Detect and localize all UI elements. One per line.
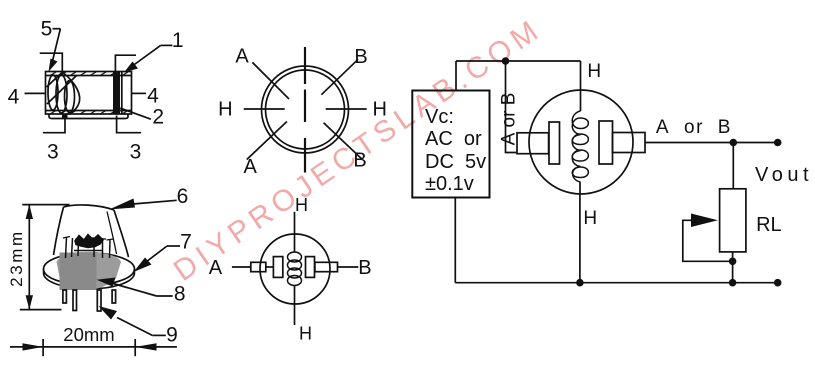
dim 23mm top tick <box>22 204 69 206</box>
wire coil to circle bottom <box>579 182 581 194</box>
leader 4 left <box>25 92 46 94</box>
bottom lip black mark <box>62 114 68 119</box>
leader 5 <box>53 28 61 30</box>
electrode plate right <box>306 257 315 278</box>
bottom lip <box>49 114 128 119</box>
leader 6 <box>133 200 177 204</box>
leader 9 <box>152 334 166 336</box>
dim 20mm right tick <box>134 339 136 356</box>
pin A top-left <box>252 62 289 99</box>
svg-text:A or B: A or B <box>656 117 732 138</box>
terminal Vout bottom <box>774 279 782 287</box>
pin H left <box>244 108 285 110</box>
svg-text:2: 2 <box>152 106 164 129</box>
interior gray rectangle <box>60 253 97 291</box>
leg 4 <box>112 290 116 303</box>
pin A bottom-left <box>247 122 287 160</box>
svg-text:A or B: A or B <box>499 93 520 146</box>
svg-text:Vc:: Vc: <box>425 106 454 128</box>
mesh diagonal 1 <box>47 73 63 88</box>
svg-text:H: H <box>295 195 308 215</box>
svg-text:AC or: AC or <box>425 128 482 150</box>
sensing layer black bar <box>113 72 120 115</box>
svg-text:20mm: 20mm <box>63 324 114 345</box>
electrode post feet <box>63 237 114 241</box>
svg-text:RL: RL <box>756 214 782 236</box>
dim 23mm bottom tick <box>20 309 62 311</box>
bracket bottom-left (3) <box>43 116 65 133</box>
mesh ellipse 1 <box>48 75 58 110</box>
flange bottom arc <box>44 269 135 289</box>
top hatch <box>50 72 128 76</box>
sensor circle U1 <box>529 90 633 194</box>
bottom crimp inner line <box>46 110 132 112</box>
pin box B <box>315 262 338 271</box>
leg 2 <box>73 290 77 311</box>
pin box A <box>251 262 266 271</box>
leader 1 <box>161 44 173 46</box>
bracket top-left <box>40 53 63 71</box>
resistor RL <box>720 189 746 252</box>
top crimp inner line <box>46 75 132 77</box>
dim 23mm arrow up <box>26 205 33 219</box>
supply box Vc <box>412 91 489 198</box>
svg-text:DC 5v: DC 5v <box>425 151 486 173</box>
outer circle <box>262 66 349 153</box>
junction wiper-RL <box>729 258 737 266</box>
terminal Vout top <box>774 139 782 147</box>
leg 1 <box>63 290 67 303</box>
junction top rail <box>502 57 510 65</box>
symbol circle <box>260 234 330 304</box>
svg-text:±0.1v: ±0.1v <box>425 173 474 195</box>
mesh ellipse 3 <box>65 81 75 113</box>
mesh cap outline <box>54 205 129 257</box>
svg-text:A: A <box>209 257 223 279</box>
svg-text:5: 5 <box>41 18 53 41</box>
mesh ellipse 2 <box>56 75 67 113</box>
lead A left <box>232 266 251 268</box>
svg-text:1: 1 <box>172 29 184 52</box>
center axis top segment <box>304 47 306 84</box>
bottom hatch <box>50 111 128 115</box>
svg-text:Vout: Vout <box>755 164 813 186</box>
svg-text:8: 8 <box>174 283 186 306</box>
wiper arrow <box>691 214 718 228</box>
svg-text:H: H <box>372 99 386 121</box>
pin H right <box>326 108 367 110</box>
svg-text:6: 6 <box>177 185 189 208</box>
electrode plate right <box>599 121 613 164</box>
heater coil schematic <box>572 111 588 182</box>
wire junction to electrode A/B <box>506 61 518 153</box>
inner circle <box>266 70 345 149</box>
bottom rail wire <box>455 282 777 284</box>
wiper wire <box>683 220 733 261</box>
svg-text:A: A <box>235 46 249 68</box>
dim 23mm line <box>28 205 30 310</box>
electrode plate left <box>273 257 282 278</box>
leader 4 right <box>132 92 147 94</box>
svg-text:4: 4 <box>8 86 20 109</box>
cap divider line <box>121 72 123 115</box>
svg-text:B: B <box>354 46 367 68</box>
pin box left <box>517 133 549 154</box>
lead H bottom <box>294 285 296 325</box>
sensing element platform line <box>74 250 103 252</box>
svg-text:9: 9 <box>166 324 178 347</box>
svg-text:H: H <box>587 61 601 82</box>
svg-text:B: B <box>358 257 371 279</box>
svg-text:A: A <box>244 156 258 178</box>
svg-text:H: H <box>583 208 597 229</box>
center axis bottom segment <box>304 138 306 173</box>
svg-text:B: B <box>353 150 366 172</box>
pin B top-right <box>321 59 358 94</box>
connector A <box>266 266 274 268</box>
heater coil <box>288 252 302 286</box>
wire electrode B to output <box>645 142 733 144</box>
junction RL bottom rail <box>729 279 737 287</box>
lead B right <box>338 266 359 268</box>
bracket top-right <box>115 55 136 71</box>
svg-text:3: 3 <box>47 141 59 164</box>
electrode plate left <box>549 122 560 164</box>
dim 20mm arrow left <box>135 343 156 350</box>
sensor body outline <box>46 72 132 115</box>
center axis middle dash <box>304 90 306 123</box>
leader 8 <box>157 295 173 297</box>
leg 3 <box>97 290 101 311</box>
mesh diagonal 2 <box>47 75 77 104</box>
svg-text:4: 4 <box>147 85 159 108</box>
mesh cap seam <box>107 212 117 255</box>
sensing element black blob <box>75 235 103 248</box>
wire box-top to top rail <box>455 61 457 91</box>
wire down to RL <box>732 143 734 189</box>
wire RL bottom <box>732 252 734 283</box>
wire top rail down to heater <box>580 61 582 111</box>
dim 23mm arrow down <box>26 295 33 309</box>
bracket bottom-right (3) <box>117 116 142 133</box>
leader 7 <box>167 245 180 247</box>
svg-text:3: 3 <box>130 141 142 164</box>
svg-text:7: 7 <box>180 231 192 254</box>
dim 20mm arrow right <box>23 343 44 350</box>
dim 20mm left tick <box>42 339 44 356</box>
lead H top <box>294 212 296 252</box>
wire output to terminal <box>733 142 777 144</box>
mesh boundary curve <box>62 72 80 114</box>
pin B bottom-right <box>324 123 363 160</box>
wire box-bottom down <box>454 198 456 283</box>
interior gray region <box>57 252 122 290</box>
junction heater bottom rail <box>576 279 584 287</box>
svg-text:23mm: 23mm <box>7 229 26 287</box>
top rail wire <box>456 60 581 62</box>
wire heater bottom <box>579 194 581 283</box>
leader 2 <box>120 108 151 119</box>
junction output node <box>730 139 738 147</box>
pin box right <box>613 133 646 153</box>
svg-text:H: H <box>218 99 232 121</box>
flange top ellipse <box>44 253 135 285</box>
inner electrode posts <box>66 237 111 258</box>
svg-text:H: H <box>299 324 312 344</box>
dim 20mm line <box>10 346 177 348</box>
